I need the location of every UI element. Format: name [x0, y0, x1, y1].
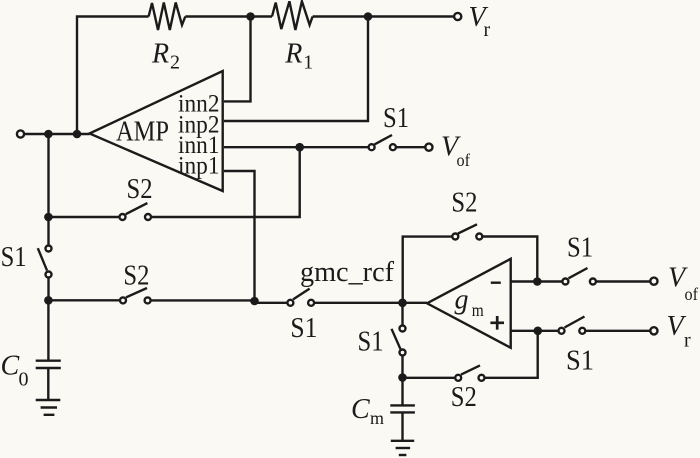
label R1: [284, 39, 313, 74]
node input B: [73, 130, 82, 139]
svg-text:R: R: [151, 39, 169, 70]
wire Cm to ground: [401, 412, 403, 440]
node input A: [44, 130, 53, 139]
svg-text:gmc_rcf: gmc_rcf: [300, 257, 395, 288]
svg-text:S1: S1: [567, 233, 593, 264]
wire S2 up to plus node: [485, 331, 538, 378]
svg-text:r: r: [684, 330, 691, 352]
wire Cm node to S2: [403, 377, 456, 379]
svg-text:0: 0: [19, 369, 29, 391]
svg-text:m: m: [370, 408, 384, 428]
wire rail left segment: [49, 299, 121, 301]
svg-text:S2: S2: [123, 261, 149, 292]
terminal Vr top: [454, 13, 461, 20]
resistor R2: [149, 3, 186, 31]
wire to Vr terminal: [585, 330, 650, 332]
label Vr right: [667, 311, 692, 352]
wire S2 to right corner down to minus node: [482, 237, 537, 282]
svg-text:S2: S2: [127, 174, 153, 205]
plus sign gm: [490, 316, 504, 330]
wire S1 to gm apex: [314, 302, 427, 304]
label Cm: [351, 394, 384, 428]
minus sign gm: [491, 282, 501, 284]
wire inp1 down to rail: [224, 171, 255, 300]
switch S1 Vof right: [562, 268, 596, 285]
svg-text:S1: S1: [1, 242, 27, 273]
node Cm junction: [398, 373, 407, 382]
wire node to R1: [251, 15, 273, 17]
node R2-R1 junction: [246, 12, 255, 21]
svg-text:AMP: AMP: [116, 117, 169, 148]
switch S1 gm vertical: [392, 326, 406, 356]
node minus junction: [533, 277, 542, 286]
svg-text:S2: S2: [451, 188, 477, 219]
capacitor C0: [36, 361, 61, 368]
label Vr top: [469, 2, 491, 41]
label C0: [1, 351, 29, 391]
svg-text:S1: S1: [566, 346, 594, 377]
wire gm input down to S1: [401, 303, 403, 326]
svg-text:inp1: inp1: [178, 153, 220, 180]
wire S2 to left node: [49, 216, 120, 218]
label gm: [455, 285, 484, 321]
svg-text:S1: S1: [358, 327, 384, 358]
node gm input: [398, 299, 407, 308]
terminal Vof middle: [425, 144, 432, 151]
wire S1 down to rail node: [47, 278, 49, 301]
terminal Vof right: [650, 278, 657, 285]
wire C0 to ground: [47, 368, 49, 400]
wire gm feedback left vertical: [403, 237, 453, 303]
svg-text:1: 1: [303, 52, 313, 74]
wire node down to inp2 pin: [224, 17, 368, 122]
switch S2 lower left: [120, 288, 151, 303]
capacitor Cm: [390, 405, 415, 412]
wire node to S1 switch: [255, 302, 288, 304]
wire switch to Vof terminal: [396, 146, 425, 148]
svg-text:S2: S2: [451, 382, 477, 413]
svg-text:of: of: [685, 284, 699, 304]
node inp1 rail junction: [250, 297, 259, 306]
node C0 junction: [44, 296, 53, 305]
ground Cm: [391, 441, 414, 455]
wire inn1 junction down to S2 row: [151, 147, 300, 217]
wire Cm branch down: [401, 378, 403, 406]
svg-text:m: m: [472, 300, 484, 320]
ground C0: [36, 400, 61, 415]
switch S2 gm top: [452, 224, 482, 239]
svg-text:R: R: [284, 39, 302, 70]
svg-text:r: r: [484, 19, 491, 41]
node after R1: [364, 12, 373, 21]
wire R1 to node: [313, 15, 368, 17]
svg-text:S1: S1: [383, 103, 409, 134]
svg-text:C: C: [1, 351, 20, 382]
wire gm plus output: [511, 330, 559, 332]
svg-text:of: of: [457, 150, 471, 170]
wire R2 to node: [185, 15, 250, 17]
wire input to AMP apex: [24, 133, 89, 135]
wire gm minus output: [511, 280, 563, 282]
switch S1 gmc_rcf: [287, 289, 314, 306]
svg-text:g: g: [455, 285, 469, 316]
resistor R1: [272, 1, 313, 30]
switch S2 gm bottom: [455, 365, 484, 380]
op-amp AMP: [90, 71, 223, 191]
wire inn1 to switch: [224, 146, 369, 148]
svg-text:2: 2: [170, 52, 180, 74]
label R2: [151, 39, 180, 74]
svg-text:S1: S1: [290, 313, 317, 344]
wire node down to inn2 pin: [224, 17, 251, 102]
label Vof middle: [441, 132, 470, 171]
wire S2 to inp1 node: [151, 299, 255, 301]
op-amp U2 gm: [427, 259, 511, 348]
terminal Vr right: [650, 327, 657, 334]
wire to Vof terminal: [596, 280, 650, 282]
switch S1 upper right: [369, 135, 396, 150]
wire left vertical and top rail to R2: [77, 17, 149, 135]
label Vof right: [668, 263, 698, 305]
node inn1 junction: [295, 143, 304, 152]
switch S1 left vertical: [38, 246, 52, 278]
wire left vertical input to S1: [47, 134, 49, 246]
node plus junction: [534, 327, 543, 336]
wire S1 down to Cm node: [401, 356, 403, 378]
wire C0 branch down: [47, 300, 49, 360]
wire node to Vr terminal: [368, 15, 454, 17]
svg-text:C: C: [351, 394, 370, 425]
terminal input left: [17, 130, 24, 137]
switch S2 upper left: [120, 203, 152, 220]
node left S2: [44, 213, 53, 222]
switch S1 Vr right: [559, 317, 586, 334]
